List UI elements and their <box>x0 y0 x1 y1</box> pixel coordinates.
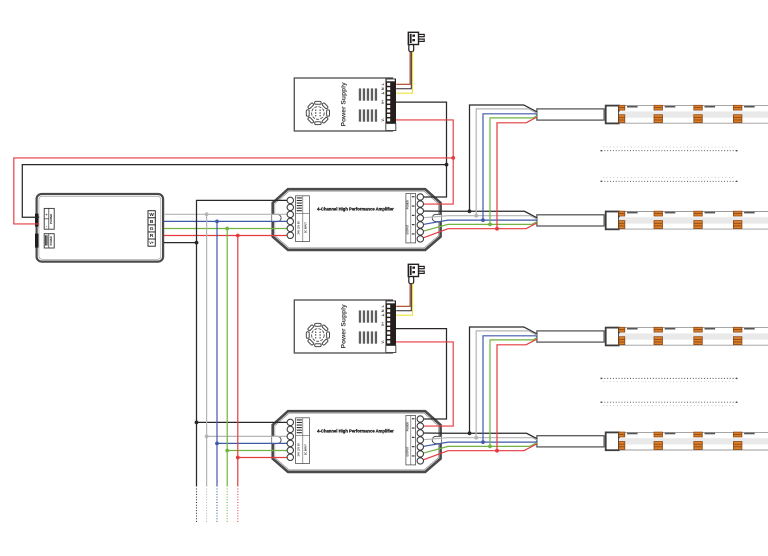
junction R at A2 branch <box>236 456 240 460</box>
amplifier A2 body <box>273 411 441 472</box>
svg-text:24V 12V 5V: 24V 12V 5V <box>298 221 301 235</box>
LED strip LS1 LED chips <box>619 105 755 122</box>
controller U1 case <box>37 194 164 262</box>
AC plug P1 <box>408 32 424 51</box>
plug P2 wire L (brown) <box>396 284 410 307</box>
power supply PS2 case <box>294 300 392 353</box>
controller U1 left tab upper <box>35 214 38 227</box>
wire R branch A2 to upper strip <box>497 339 537 451</box>
junction R output A2 <box>495 449 499 453</box>
wire B bus down to A2 (blue) <box>217 221 290 443</box>
power supply PS1 vents <box>359 88 377 121</box>
junction G at A2 branch <box>225 449 229 453</box>
LED strip LS2 connector <box>606 212 619 230</box>
dotted continuation of B bus <box>216 489 218 524</box>
LED strip LS2 connector sleeve <box>537 215 604 226</box>
wire V+ controller to A1 (black) <box>164 200 290 242</box>
dotted continuation between LS3 and LS4 lower <box>600 401 737 405</box>
svg-text:POWER: POWER <box>49 214 53 224</box>
junction G output A2 <box>488 445 492 449</box>
svg-text:OUTPUT: OUTPUT <box>407 224 410 234</box>
junction W output A2 <box>474 436 478 440</box>
wire G channel controller to A1 (green) <box>164 228 290 230</box>
wire G branch A2 to upper strip <box>490 338 537 447</box>
amplifier A1 input label block <box>296 196 310 242</box>
wire W bus down to A2 (gray) <box>207 214 291 436</box>
svg-text:V-: V- <box>381 118 385 121</box>
LED strip LS2 body <box>619 212 768 230</box>
LED strip LS2 LED chips <box>619 211 755 228</box>
wire V+ bus down to A2 (black) <box>197 243 291 423</box>
wire PS2 V- to amplifier A2 (red) <box>396 342 453 426</box>
power supply PS2 terminal block <box>386 301 397 353</box>
junction B at A2 branch <box>215 442 219 446</box>
wire V+ output A1 to lower strip <box>420 211 537 218</box>
wire W channel controller to A1 (gray) <box>164 213 290 215</box>
plug P1 wire N (black) <box>396 52 411 89</box>
power supply PS1 case <box>294 78 392 131</box>
wire G output A2 to lower strip <box>420 443 537 454</box>
junction G at U1 branch <box>225 227 229 231</box>
junction R output A1 <box>495 227 499 231</box>
plug P1 wire L (brown) <box>396 52 410 85</box>
wire V+ output A2 to lower strip <box>420 433 537 439</box>
wire R output A2 to lower strip <box>420 444 537 461</box>
amplifier A1 title text <box>317 207 394 212</box>
controller U1 POWER input terminal <box>44 208 54 229</box>
power supply PS1 fan <box>306 101 329 124</box>
wire PS1 V- to amplifier A1 (red) <box>396 120 453 204</box>
junction V+ at controller branch <box>195 241 199 245</box>
wire V+ bus continuation (black) <box>196 422 198 486</box>
svg-text:4-Channel High Performance Amp: 4-Channel High Performance Amplifier <box>317 207 394 212</box>
wire G branch A1 to upper strip <box>490 116 537 225</box>
power supply PS1 terminal labels L N earth V+ V- <box>380 82 385 121</box>
LED strip LS4 LED chips <box>619 432 755 449</box>
dotted continuation between LS1 and LS2 lower <box>600 178 737 183</box>
svg-text:4-Channel High Performance Amp: 4-Channel High Performance Amplifier <box>317 429 394 434</box>
svg-text:POWER: POWER <box>407 200 410 209</box>
wire R channel controller to A1 (red) <box>164 235 290 237</box>
amplifier A2 title text <box>317 429 394 434</box>
junction W output A1 <box>474 214 478 218</box>
wire W bus continuation (gray) <box>206 436 208 486</box>
dotted continuation of R bus <box>237 489 239 524</box>
junction V+ output A1 <box>468 209 472 213</box>
amplifier A1 right mounting slot <box>432 214 441 221</box>
amplifier A1 left mounting slot <box>272 214 281 221</box>
junction V+ at A2 branch <box>195 421 199 425</box>
dotted continuation of V+ bus <box>196 489 198 524</box>
svg-text:⏚: ⏚ <box>380 91 385 95</box>
power supply PS2 vents <box>359 310 377 343</box>
svg-text:B: B <box>150 219 154 225</box>
LED strip LS1 body <box>619 106 768 124</box>
junction V+ node PS1 <box>445 163 449 167</box>
svg-text:N: N <box>381 87 385 90</box>
svg-text:POWER: POWER <box>407 422 410 431</box>
LED strip LS4 body <box>619 432 768 450</box>
amplifier A2 right mounting slot <box>432 436 441 443</box>
junction G output A1 <box>488 223 492 227</box>
power supply PS2 terminal labels L N earth V+ V- <box>380 304 385 343</box>
wire W output A1 to lower strip <box>420 216 537 219</box>
wire B branch A1 to upper strip <box>483 114 537 220</box>
wire B bus continuation (blue) <box>216 443 218 486</box>
svg-text:24V 12V 5V: 24V 12V 5V <box>298 443 301 457</box>
amplifier A2 terminal circles <box>287 416 423 464</box>
wire R bus down to A2 (red) <box>238 236 290 458</box>
svg-text:V-: V- <box>381 340 385 343</box>
svg-text:R: R <box>150 233 154 239</box>
svg-text:DC INPUT: DC INPUT <box>305 444 307 455</box>
LED strip LS1 connector sleeve <box>537 109 604 120</box>
wire V+ branch A1 to upper strip <box>470 105 537 211</box>
wire B channel controller to A1 (blue) <box>164 220 290 222</box>
wire V+ branch to controller U1 (black) <box>22 165 446 218</box>
junction B at U1 branch <box>215 220 219 224</box>
AC plug P2 <box>408 264 424 283</box>
svg-text:+: + <box>45 213 47 217</box>
svg-text:⏚: ⏚ <box>380 313 385 317</box>
LED strip LS3 LED chips <box>619 327 755 344</box>
dotted continuation between LS1 and LS2 <box>600 147 737 152</box>
power supply PS2 fan <box>306 323 329 346</box>
power supply PS1 terminal block <box>386 79 397 131</box>
svg-text:Power Supply: Power Supply <box>341 82 348 127</box>
amplifier A1 terminal circles <box>287 194 423 242</box>
power supply PS2 label <box>341 304 348 349</box>
LED strip LS1 connector <box>606 106 619 124</box>
LED strip LS3 connector sleeve <box>537 331 604 342</box>
wire R branch A1 to upper strip <box>497 117 537 229</box>
wire B branch A2 to upper strip <box>483 336 537 442</box>
amplifier A2 input label block <box>296 418 310 464</box>
wire R output A1 to lower strip <box>420 223 537 239</box>
amplifier A1 output label block <box>406 194 416 243</box>
wire G output A1 to lower strip <box>420 222 537 232</box>
wire B output A2 to lower strip <box>420 441 537 447</box>
junction R at U1 branch <box>236 234 240 238</box>
svg-text:OUTPUT: OUTPUT <box>407 446 410 456</box>
dotted continuation of W bus <box>206 489 208 524</box>
LED strip LS3 connector <box>606 328 619 346</box>
dotted continuation between LS3 and LS4 <box>600 378 737 382</box>
plug P2 wire N (black) <box>396 284 411 311</box>
svg-text:V+: V+ <box>381 322 385 326</box>
svg-text:N: N <box>381 309 385 312</box>
junction V+ output A2 <box>468 431 472 435</box>
amplifier A2 output label block <box>406 416 416 465</box>
junction B output A2 <box>481 440 485 444</box>
LED strip LS4 connector sleeve <box>537 436 604 447</box>
svg-text:V+: V+ <box>381 100 385 104</box>
power supply PS1 label <box>341 82 348 127</box>
wire R bus continuation (red) <box>237 458 239 487</box>
plug P1 wire earth (yellow) <box>396 52 412 93</box>
amplifier A2 left mounting slot <box>272 436 281 443</box>
controller U1 output terminals W B G R V+ <box>148 211 155 247</box>
amplifier A1 body <box>273 189 441 250</box>
junction B output A1 <box>481 218 485 222</box>
wire V+ branch A2 to upper strip <box>470 327 537 433</box>
wire G bus down to A2 (green) <box>227 229 290 451</box>
junction W at U1 branch <box>205 212 209 216</box>
controller U1 left tab lower <box>35 234 38 248</box>
wire G bus continuation (green) <box>226 451 228 487</box>
junction W at A2 branch <box>205 435 209 439</box>
wire W branch A2 to upper strip <box>476 331 537 438</box>
svg-text:DC INPUT: DC INPUT <box>305 222 307 233</box>
dotted continuation of G bus <box>226 489 228 524</box>
wire B output A1 to lower strip <box>420 220 537 225</box>
svg-text:W: W <box>149 212 154 218</box>
wire W branch A1 to upper strip <box>476 109 537 216</box>
wire W output A2 to lower strip <box>420 438 537 440</box>
wire V- branch to controller U1 (red) <box>14 158 453 224</box>
svg-text:Power Supply: Power Supply <box>341 304 348 349</box>
controller U1 LED output block <box>44 234 54 248</box>
svg-text:POWER: POWER <box>50 236 53 245</box>
wire PS1 V+ to amplifier A1 (black) <box>396 102 447 197</box>
junction V- node PS1 <box>451 156 455 160</box>
LED strip LS4 connector <box>606 432 619 450</box>
wire PS2 V+ to amplifier A2 (black) <box>396 329 447 419</box>
LED strip LS3 body <box>619 328 768 346</box>
svg-text:V+: V+ <box>149 241 154 245</box>
svg-text:G: G <box>150 226 154 232</box>
plug P2 wire earth (yellow) <box>396 284 412 316</box>
